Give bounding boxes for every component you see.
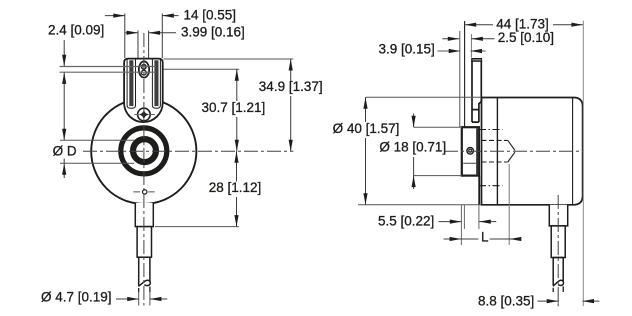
svg-text:14 [0.55]: 14 [0.55] — [184, 8, 237, 23]
svg-text:30.7 [1.21]: 30.7 [1.21] — [202, 100, 266, 115]
svg-text:3.9 [0.15]: 3.9 [0.15] — [379, 42, 435, 57]
svg-text:28 [1.12]: 28 [1.12] — [209, 180, 262, 195]
svg-text:8.8 [0.35]: 8.8 [0.35] — [478, 294, 534, 309]
svg-text:44 [1.73]: 44 [1.73] — [496, 16, 549, 31]
svg-text:2.5 [0.10]: 2.5 [0.10] — [498, 30, 554, 45]
svg-text:L: L — [481, 230, 489, 245]
svg-text:Ø D: Ø D — [53, 144, 77, 159]
svg-text:2.4 [0.09]: 2.4 [0.09] — [48, 23, 104, 38]
svg-text:Ø 40 [1.57]: Ø 40 [1.57] — [333, 121, 400, 136]
svg-text:5.5 [0.22]: 5.5 [0.22] — [378, 214, 434, 229]
svg-text:Ø 4.7 [0.19]: Ø 4.7 [0.19] — [41, 290, 112, 305]
svg-text:34.9 [1.37]: 34.9 [1.37] — [259, 79, 323, 94]
svg-text:Ø 18 [0.71]: Ø 18 [0.71] — [379, 140, 446, 155]
svg-text:3.99 [0.16]: 3.99 [0.16] — [181, 24, 245, 39]
